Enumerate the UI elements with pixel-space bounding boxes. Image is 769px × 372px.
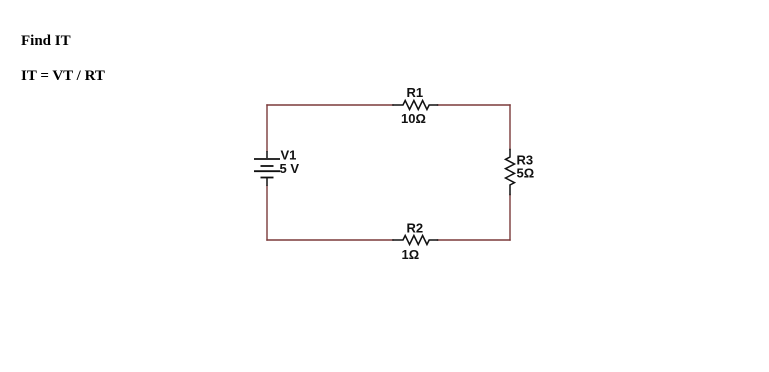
svg-text:1Ω: 1Ω (402, 247, 420, 262)
wire left lower segment (266, 186, 268, 240)
title text "Find IT" (21, 33, 71, 50)
wire right upper segment (509, 105, 511, 150)
battery top lead (266, 151, 268, 158)
svg-text:R2: R2 (407, 221, 424, 236)
wire bottom-right segment (438, 239, 511, 241)
battery plate short lower (261, 177, 274, 179)
wire top-left segment (267, 104, 393, 106)
svg-text:R1: R1 (407, 85, 424, 100)
svg-text:5Ω: 5Ω (517, 166, 535, 181)
resistor R1 (393, 101, 438, 110)
battery V1 (254, 151, 280, 186)
resistor R3 (506, 150, 515, 195)
battery plate long lower (254, 170, 280, 172)
battery bottom lead (266, 178, 268, 186)
battery plate long upper (254, 158, 280, 160)
wire bottom-left segment (267, 239, 393, 241)
svg-text:5 V: 5 V (280, 161, 300, 176)
wire left upper segment (266, 105, 268, 151)
wire top-right segment (438, 104, 511, 106)
formula text "IT = VT / RT" (21, 68, 105, 85)
svg-text:10Ω: 10Ω (401, 111, 426, 126)
resistor R2 (393, 236, 438, 245)
battery plate short upper (261, 165, 274, 167)
wire right lower segment (509, 195, 511, 241)
